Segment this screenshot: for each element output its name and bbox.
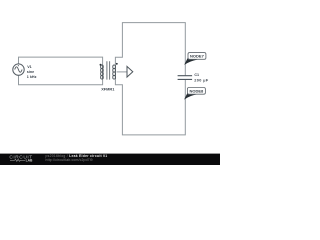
svg-text:sine: sine bbox=[27, 70, 34, 74]
svg-text:V1: V1 bbox=[27, 65, 32, 69]
svg-text:C1: C1 bbox=[194, 73, 199, 77]
svg-text:200 µF: 200 µF bbox=[194, 79, 209, 83]
svg-text:NODE7: NODE7 bbox=[190, 54, 205, 59]
svg-text:XFMR1: XFMR1 bbox=[101, 86, 115, 91]
svg-text:http://circuitlab.com/c2pd7i9: http://circuitlab.com/c2pd7i9 bbox=[46, 158, 93, 162]
svg-text:1 kHz: 1 kHz bbox=[27, 75, 37, 79]
svg-text:LAB: LAB bbox=[26, 159, 33, 163]
svg-text:NODE8: NODE8 bbox=[190, 89, 205, 94]
